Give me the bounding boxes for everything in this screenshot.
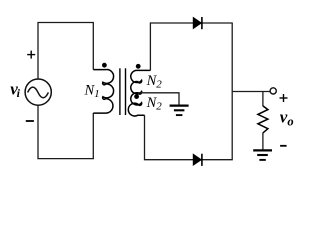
svg-text:N2: N2 <box>146 95 163 112</box>
svg-text:N2: N2 <box>146 73 163 90</box>
svg-text:N1: N1 <box>84 83 100 100</box>
svg-text:vo: vo <box>280 107 294 128</box>
svg-text:vi: vi <box>10 80 20 101</box>
